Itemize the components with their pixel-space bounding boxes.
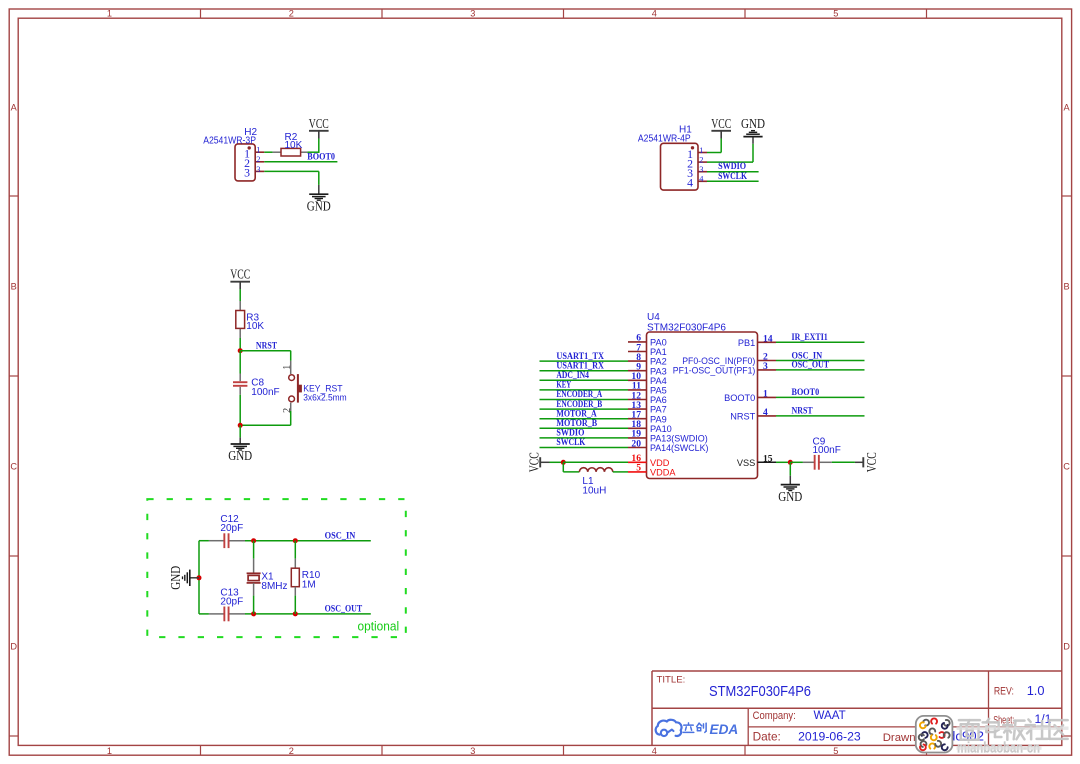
wire SWDIO net from H1 pin3 [707, 171, 759, 173]
svg-text:PA6: PA6 [650, 395, 667, 405]
svg-text:SWDIO: SWDIO [718, 162, 746, 172]
svg-text:OSC_OUT: OSC_OUT [325, 605, 363, 615]
svg-text:PA1: PA1 [650, 347, 667, 357]
svg-text:OSC_IN: OSC_IN [325, 532, 356, 542]
wire junction to U4 VDD pin 16 [563, 461, 628, 463]
svg-text:4: 4 [652, 9, 657, 19]
svg-text:2: 2 [289, 9, 294, 19]
svg-text:1: 1 [282, 365, 293, 370]
net label OSC_IN [792, 351, 823, 361]
svg-text:REV:: REV: [994, 686, 1014, 698]
wire BOOT0 net from H2 pin2 [264, 161, 337, 163]
svg-text:100nF: 100nF [813, 445, 841, 456]
svg-text:C: C [1063, 461, 1070, 471]
title block texts [657, 674, 1052, 744]
svg-text:VSS: VSS [737, 458, 755, 468]
svg-text:15: 15 [763, 453, 773, 464]
svg-text:100nF: 100nF [251, 387, 279, 398]
svg-text:EDA: EDA [710, 722, 739, 737]
junction OSC_OUT / X1 [251, 611, 256, 616]
ground GND (crystal, rotated) [168, 566, 199, 590]
svg-text:NRST: NRST [256, 341, 278, 351]
connector H2 A2541WR-3P [203, 127, 264, 181]
junction GND node (C8) [238, 423, 243, 428]
net label BOOT0 [307, 153, 335, 163]
svg-text:VCC: VCC [230, 267, 250, 282]
wire H2 pin3 to GND [264, 171, 319, 185]
wire R2 to VCC corner [307, 138, 318, 153]
net label ENCODER_A [556, 390, 602, 400]
power port VCC (H2) [318, 131, 320, 139]
svg-text:KEY: KEY [556, 381, 571, 391]
svg-text:A2541WR-4P: A2541WR-4P [638, 134, 691, 145]
wire SWCLK net from H1 pin4 [707, 180, 759, 182]
wire VCC to R3 [239, 289, 241, 301]
capacitor C12 20pF [209, 514, 245, 548]
svg-text:IR_EXTI1: IR_EXTI1 [792, 333, 829, 343]
svg-text:VDDA: VDDA [650, 468, 676, 478]
svg-text:WAAT: WAAT [814, 709, 846, 722]
svg-text:optional: optional [358, 620, 400, 634]
svg-text:10uH: 10uH [582, 486, 606, 497]
net label BOOT0 [792, 388, 820, 398]
wire KEY_RST pin2 to GND junction [240, 411, 291, 425]
svg-text:A: A [1064, 102, 1071, 112]
svg-text:A: A [11, 102, 18, 112]
svg-text:3: 3 [699, 165, 703, 174]
capacitor C9 100nF [803, 436, 841, 469]
net label SWDIO [556, 429, 584, 439]
wire VCC to VDD junction [550, 461, 564, 463]
svg-text:PA2: PA2 [650, 357, 667, 367]
svg-text:4: 4 [687, 176, 693, 190]
power port VCC (C9) [855, 452, 879, 472]
svg-text:GND: GND [307, 198, 331, 213]
svg-text:4: 4 [652, 746, 657, 756]
capacitor C8 [233, 374, 280, 399]
power port VCC (H1) [720, 131, 722, 139]
wire ENCODER_B net to U4 pin 13 [540, 408, 629, 410]
resistor R2 [273, 132, 308, 156]
wire MOTOR_A net to U4 pin 17 [540, 418, 629, 420]
junction VDD node [561, 460, 566, 465]
wire junction to C8 [239, 351, 241, 374]
net label USART1_RX [556, 361, 604, 371]
net label SWDIO [718, 162, 746, 172]
wire SWDIO net to U4 pin 19 [540, 437, 629, 439]
resistor R3 [236, 301, 265, 338]
svg-text:GND: GND [168, 566, 183, 590]
svg-text:2019-06-23: 2019-06-23 [798, 729, 861, 743]
wire SWCLK net to U4 pin 20 [540, 447, 629, 449]
svg-text:PA5: PA5 [650, 386, 667, 396]
net label ENCODER_B [556, 400, 602, 410]
watermark text mianbaoban shequ [957, 719, 1069, 757]
svg-text:PF1-OSC_OUT(PF1): PF1-OSC_OUT(PF1) [673, 366, 756, 376]
svg-text:2: 2 [699, 156, 703, 165]
svg-text:VCC: VCC [864, 452, 879, 472]
wire junction to GND [789, 462, 791, 475]
wire OSC_OUT net to U4 pin 3 [776, 369, 865, 371]
wire OSC_IN net to U4 pin 2 [776, 360, 865, 362]
svg-text:3: 3 [244, 166, 250, 180]
net label OSC_OUT [792, 361, 830, 371]
svg-text:B: B [1064, 281, 1070, 291]
wire junction to C9 [790, 461, 803, 463]
svg-text:PB1: PB1 [738, 338, 755, 348]
svg-text:PA7: PA7 [650, 405, 667, 415]
svg-text:10K: 10K [285, 140, 303, 151]
wire USART1_TX net to U4 pin 8 [540, 360, 629, 362]
svg-text:BOOT0: BOOT0 [724, 393, 755, 403]
net label ADC_IN4 [556, 371, 589, 381]
wire H1 pin2 to GND [707, 144, 753, 162]
wire KEY net to U4 pin 11 [540, 389, 629, 391]
net label NRST [256, 341, 278, 351]
push button KEY_RST 3x6x2.5mm [282, 361, 347, 413]
svg-text:1.0: 1.0 [1027, 683, 1045, 698]
title block table [652, 671, 1062, 745]
svg-text:USART1_RX: USART1_RX [556, 361, 604, 371]
svg-text:Company:: Company: [753, 710, 796, 722]
svg-text:8MHz: 8MHz [261, 581, 287, 592]
wire left rail (GND rail) [199, 541, 209, 614]
svg-text:C: C [10, 461, 17, 471]
svg-text:4: 4 [763, 407, 768, 418]
svg-text:PA0: PA0 [650, 338, 667, 348]
wire C8 to GND junction [239, 395, 241, 426]
svg-text:BOOT0: BOOT0 [307, 153, 335, 163]
wire MOTOR_B net to U4 pin 18 [540, 427, 629, 429]
wire BOOT0 net to U4 pin 1 [776, 396, 865, 398]
svg-text:PA9: PA9 [650, 414, 667, 424]
svg-text:MOTOR_A: MOTOR_A [556, 409, 597, 419]
net label SWCLK [556, 438, 586, 448]
svg-text:10K: 10K [246, 321, 264, 332]
resistor R10 1M [291, 541, 320, 614]
svg-text:TITLE:: TITLE: [657, 674, 686, 685]
wire NRST junction to KEY_RST pin1 [240, 351, 291, 361]
optional area dashed box [147, 499, 406, 637]
svg-text:5: 5 [833, 746, 838, 756]
svg-text:SWCLK: SWCLK [718, 172, 748, 182]
svg-text:USART1_TX: USART1_TX [556, 352, 604, 362]
svg-text:SWDIO: SWDIO [556, 429, 584, 439]
svg-text:ENCODER_B: ENCODER_B [556, 400, 602, 410]
svg-text:GND: GND [741, 116, 765, 131]
svg-text:20pF: 20pF [220, 596, 243, 607]
junction OSC_OUT / R10 [293, 611, 298, 616]
svg-text:3x6x2.5mm: 3x6x2.5mm [303, 391, 347, 402]
net label OSC_OUT [325, 605, 363, 615]
svg-text:1: 1 [107, 746, 112, 756]
svg-text:VCC: VCC [711, 116, 731, 131]
svg-text:GND: GND [228, 448, 252, 463]
wire C9 to VCC [832, 461, 855, 463]
svg-text:OSC_OUT: OSC_OUT [792, 361, 830, 371]
svg-text:20pF: 20pF [220, 523, 243, 534]
svg-text:ENCODER_A: ENCODER_A [556, 390, 602, 400]
svg-text:VCC: VCC [309, 116, 329, 131]
wire NRST net to U4 pin 4 [776, 415, 865, 417]
svg-text:3: 3 [763, 361, 768, 372]
svg-text:VCC: VCC [527, 452, 542, 472]
net label MOTOR_A [556, 409, 597, 419]
optional text [358, 620, 400, 634]
wire C12 to OSC_IN [245, 540, 371, 542]
ground GND (H2) [318, 185, 320, 194]
svg-text:ADC_IN4: ADC_IN4 [556, 371, 589, 381]
svg-text:2: 2 [289, 746, 294, 756]
junction OSC_IN / X1 [251, 538, 256, 543]
svg-text:B: B [11, 281, 17, 291]
wire ADC_IN4 net to U4 pin 10 [540, 379, 629, 381]
svg-text:2: 2 [282, 408, 293, 413]
junction OSC_IN / R10 [293, 538, 298, 543]
svg-text:MOTOR_B: MOTOR_B [556, 419, 597, 429]
svg-text:STM32F030F4P6: STM32F030F4P6 [709, 684, 811, 700]
net label NRST [792, 407, 814, 417]
ground GND (H1) [752, 137, 754, 144]
net label IR_EXTI1 [792, 333, 829, 343]
net label OSC_IN [325, 532, 356, 542]
svg-text:3: 3 [256, 165, 260, 174]
capacitor C13 20pF [209, 587, 245, 621]
svg-text:PA14(SWCLK): PA14(SWCLK) [650, 443, 709, 453]
svg-text:Date:: Date: [753, 729, 781, 743]
svg-text:D: D [1063, 641, 1070, 651]
power port VCC (R3) [239, 282, 241, 290]
net label KEY [556, 381, 571, 391]
wire R3 to NRST junction [239, 338, 241, 351]
crystal X1 8MHz [247, 541, 288, 614]
svg-text:5: 5 [636, 463, 641, 474]
power port VCC (VDD) [527, 452, 550, 472]
svg-text:GND: GND [778, 489, 802, 504]
net label USART1_TX [556, 352, 604, 362]
svg-text:1: 1 [107, 9, 112, 19]
ground GND (C8/KEY) [239, 437, 241, 444]
wire L1 to U4 VDDA pin 5 [613, 471, 628, 473]
connector H1 A2541WR-4P [638, 124, 707, 190]
wire IR_EXTI1 net to U4 pin 14 [776, 341, 865, 343]
watermark logo mianbaoban [916, 716, 953, 753]
svg-text:SWCLK: SWCLK [556, 438, 586, 448]
ground GND (VSS) [789, 476, 791, 485]
svg-text:1: 1 [699, 146, 703, 155]
svg-text:3: 3 [470, 746, 475, 756]
svg-text:1: 1 [256, 146, 260, 155]
svg-text:A2541WR-3P: A2541WR-3P [203, 136, 256, 147]
inductor L1 10uH [579, 468, 612, 497]
svg-text:3: 3 [470, 9, 475, 19]
wire H2 pin1 to R2 [264, 151, 272, 153]
wire junction down to L1 [563, 462, 579, 472]
svg-text:PA4: PA4 [650, 376, 667, 386]
svg-text:14: 14 [763, 333, 773, 344]
logo LCEDA (立创EDA) [656, 720, 739, 737]
svg-text:5: 5 [833, 9, 838, 19]
junction VSS node [788, 460, 793, 465]
svg-text:PA10: PA10 [650, 424, 672, 434]
junction GND rail [197, 575, 202, 580]
op-amp U4 STM32F030F4P6 [628, 312, 776, 478]
svg-text:PA3: PA3 [650, 366, 667, 376]
wire C13 to OSC_OUT [245, 613, 371, 615]
svg-text:D: D [10, 641, 17, 651]
wire U4 VSS pin 15 to junction [776, 461, 790, 463]
svg-text:VDD: VDD [650, 458, 670, 468]
svg-text:PA13(SWDIO): PA13(SWDIO) [650, 434, 708, 444]
junction NRST node [238, 348, 243, 353]
wire ENCODER_A net to U4 pin 12 [540, 399, 629, 401]
wire H1 pin1 to VCC [707, 138, 721, 152]
wire USART1_RX net to U4 pin 9 [540, 370, 629, 372]
svg-text:BOOT0: BOOT0 [792, 388, 820, 398]
svg-text:1M: 1M [302, 580, 316, 591]
svg-text:STM32F030F4P6: STM32F030F4P6 [647, 322, 726, 333]
svg-text:1: 1 [763, 388, 768, 399]
svg-text:20: 20 [631, 438, 641, 449]
net label MOTOR_B [556, 419, 597, 429]
svg-text:2: 2 [256, 155, 260, 164]
wire junction to GND [239, 425, 241, 437]
net label SWCLK [718, 172, 748, 182]
svg-text:NRST: NRST [792, 407, 814, 417]
svg-text:NRST: NRST [730, 412, 755, 422]
